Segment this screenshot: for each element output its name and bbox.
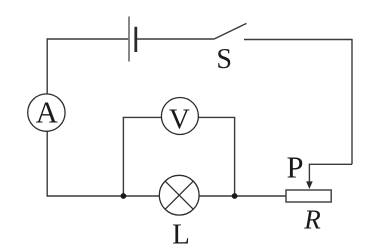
wire right vertical (top corner down to rheostat feed) <box>351 39 353 165</box>
lamp L circle <box>159 175 199 215</box>
wire voltmeter branch right rail <box>234 117 236 196</box>
lamp X cross line 1 <box>165 181 193 209</box>
battery short plate (negative) <box>134 27 137 52</box>
junction node right (voltmeter/lamp tap) <box>232 193 238 199</box>
rheostat slider arrow shaft <box>308 164 310 183</box>
svg-text:V: V <box>169 104 190 136</box>
wire left vertical upper (corner to ammeter) <box>46 38 48 94</box>
wire bottom left (ammeter corner to lamp) <box>47 195 160 197</box>
svg-text:A: A <box>36 95 58 129</box>
lamp X cross line 2 <box>165 181 193 209</box>
wire left vertical lower (ammeter to bottom wire) <box>46 131 48 196</box>
wire battery to switch <box>136 38 213 40</box>
wire voltmeter branch left rail <box>122 117 124 196</box>
battery long plate (positive) <box>128 17 130 62</box>
svg-text:P: P <box>287 151 304 185</box>
svg-text:L: L <box>172 219 190 251</box>
switch S blade <box>214 23 247 39</box>
wire bottom right (lamp to rheostat) <box>199 195 286 197</box>
svg-text:S: S <box>216 44 232 75</box>
wire voltmeter branch top-right horizontal <box>198 116 235 118</box>
wire voltmeter branch top-left horizontal <box>123 116 162 118</box>
voltmeter V circle <box>161 98 198 135</box>
rheostat slider arrowhead <box>306 181 313 189</box>
junction node left (voltmeter/lamp tap) <box>121 193 127 199</box>
rheostat R body <box>286 190 331 202</box>
wire horizontal to slider P <box>309 163 352 165</box>
wire top-left horizontal (corner to battery) <box>47 38 128 40</box>
svg-text:R: R <box>303 205 321 235</box>
ammeter A circle <box>28 94 65 131</box>
wire switch to top-right corner <box>244 39 352 41</box>
